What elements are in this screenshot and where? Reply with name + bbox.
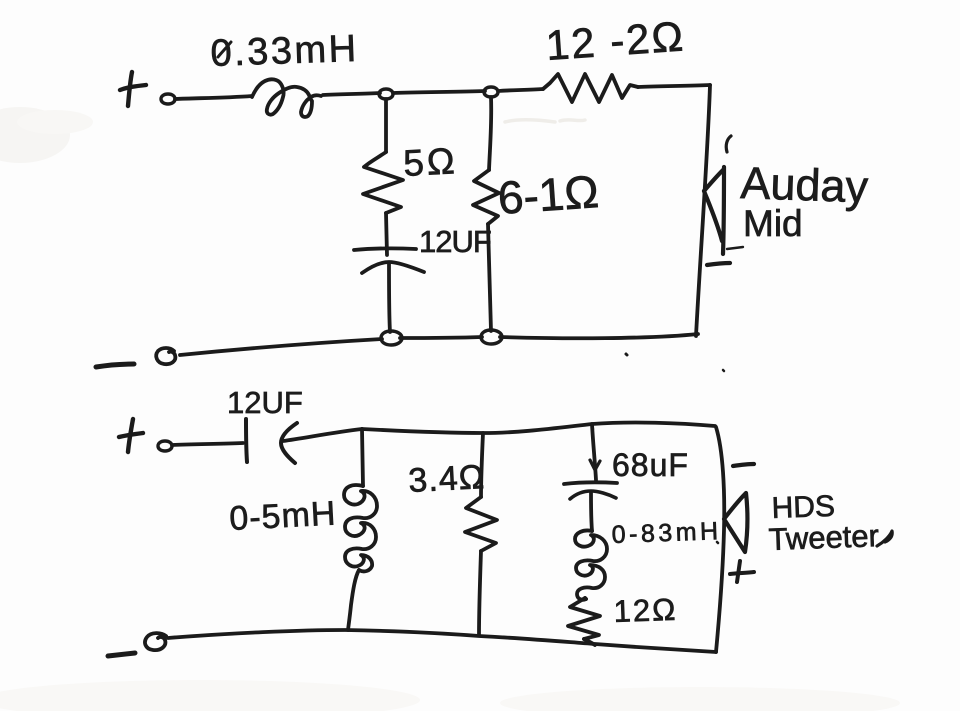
svg-text:0.33mH: 0.33mH: [210, 28, 359, 75]
svg-text:Tweeter: Tweeter: [768, 518, 879, 557]
svg-text:68uF: 68uF: [612, 447, 689, 483]
svg-text:12Ω: 12Ω: [613, 592, 678, 629]
svg-text:0-5mH: 0-5mH: [228, 494, 337, 538]
svg-text:6-1Ω: 6-1Ω: [496, 165, 600, 224]
svg-text:3.4Ω: 3.4Ω: [407, 458, 486, 500]
svg-text:5Ω: 5Ω: [402, 140, 458, 184]
svg-text:12 -2Ω: 12 -2Ω: [544, 12, 686, 69]
svg-text:12UF: 12UF: [419, 224, 491, 259]
svg-text:0-83mH: 0-83mH: [611, 517, 722, 549]
svg-text:Mid: Mid: [743, 203, 803, 244]
svg-text:12UF: 12UF: [227, 385, 303, 420]
